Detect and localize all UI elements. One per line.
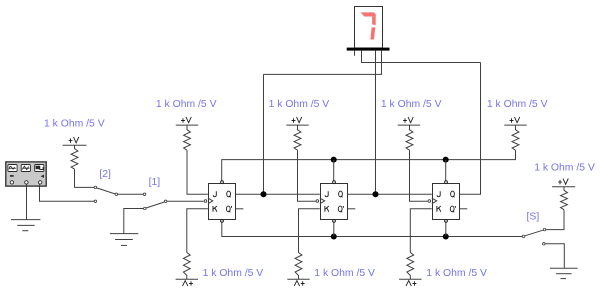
node B junction (U3 Q / display) [373,191,379,197]
node: switch [1] upper contact [143,193,146,196]
+V power symbol (rotated) [183,281,193,286]
wire R9 to switch [S] upper contact [546,210,564,230]
ground (below switch [S]) [550,268,578,278]
function generator U1 [6,162,46,186]
display pin 4 wire to left drop [264,51,382,75]
svg-text:1 k Ohm /5 V: 1 k Ohm /5 V [203,268,264,279]
resistor R6 1 k Ohm /5 V (U2 K pull-down) [176,209,264,286]
+V power symbol [558,179,568,185]
resistor R2 1 k Ohm /5 V (U2 J pull-up) [156,99,217,150]
svg-text:1 k Ohm /5 V: 1 k Ohm /5 V [487,99,548,110]
wire U3 Q' stub [347,208,355,210]
wire U2 Q to U3 J [235,193,319,195]
wire U2 Q' stub [235,208,243,210]
resistor R4 1 k Ohm /5 V (U4 clock pull-up) [381,99,442,150]
wire switch [S] lower contact to ground [545,244,564,268]
display pin 3 long wire to node B [375,51,377,195]
wire switch [1] pivot to U2 clock [167,200,204,202]
switch [2] [94,169,143,195]
+V power symbol (rotated) [294,281,304,286]
seven segment display DISP1 [347,7,390,51]
resistor R9 1 k Ohm /5 V (switch [S] pull-up) [534,162,595,209]
switch [1] [144,177,167,210]
node: switch [2] lower contact (from generator) [94,200,97,203]
segment a (top, lit) [361,12,376,16]
svg-text:[2]: [2] [99,169,111,180]
wire U3 Q to U4 J [347,193,432,195]
wire R4 to U4 clock [410,150,428,201]
svg-text:1 k Ohm /5 V: 1 k Ohm /5 V [381,99,442,110]
wire top bus to U3 preset pin [333,160,335,181]
wire R1 to switch [2] upper contact [75,169,95,187]
wire right drop to U4 Q [459,63,480,195]
wire switch [1] lower contact to ground [124,209,144,234]
+V power symbol [403,117,413,123]
resistor R5 1 k Ohm /5 V (top bus pull-up) [487,99,548,150]
display pin 1 stub [354,51,356,56]
junction on top bus above U3 [331,157,337,163]
switch [S] [522,211,545,245]
JK flip-flop U2 [204,181,235,223]
svg-text:1 k Ohm /5 V: 1 k Ohm /5 V [534,162,595,173]
wire top bus to U4 preset pin [445,160,447,181]
wire generator middle terminal to ground [26,184,28,219]
display base bar [347,48,390,51]
segment b (top right, lit) [372,17,376,26]
junction on bottom bus below U3 [331,234,337,240]
junction on bottom bus below U4 [443,234,449,240]
JK flip-flop U4 [428,181,459,223]
wire R2 to U2 J input [187,150,208,194]
wire bottom bus to U4 clear pin [445,223,447,237]
svg-text:[1]: [1] [149,177,161,188]
segment c (bottom right, lit) [370,27,375,39]
ground (below generator) [11,220,40,231]
ground (below switch [1]) [110,234,138,246]
resistor R1 1 k Ohm /5 V (generator pull-up) [44,119,105,170]
JK flip-flop U3 [316,181,347,223]
resistor R3 1 k Ohm /5 V (U3 clock pull-up) [269,99,330,150]
bottom bus wire (flip-flop clears to switch [S]) [222,223,523,237]
node A junction (U2 Q / display) [261,191,267,197]
wire generator right terminal to switch contact [40,184,95,201]
+V power symbol [181,117,191,123]
svg-text:1 k Ohm /5 V: 1 k Ohm /5 V [44,119,105,130]
+V power symbol (rotated) [406,281,416,286]
+V power symbol [510,117,520,123]
svg-text:1 k Ohm /5 V: 1 k Ohm /5 V [156,99,217,110]
wire U4 Q' stub [459,208,467,210]
wire R3 to U3 clock [298,150,316,201]
wire left drop to node A [263,74,265,194]
wire bottom bus to U3 clear pin [333,223,335,237]
display pin 2 wire to right drop [362,51,481,63]
resistor R8 1 k Ohm /5 V (U4 K pull-down) [399,209,487,286]
resistor R7 1 k Ohm /5 V (U3 K pull-down) [287,209,375,286]
svg-text:1 k Ohm /5 V: 1 k Ohm /5 V [314,268,375,279]
svg-text:[S]: [S] [527,211,540,222]
junction on top bus above U4 [443,157,449,163]
+V power symbol [292,117,302,123]
svg-text:1 k Ohm /5 V: 1 k Ohm /5 V [269,99,330,110]
svg-text:1 k Ohm /5 V: 1 k Ohm /5 V [426,268,487,279]
+V power symbol [69,137,79,143]
top bus wire (+V rail to flip-flop presets) [222,150,516,181]
